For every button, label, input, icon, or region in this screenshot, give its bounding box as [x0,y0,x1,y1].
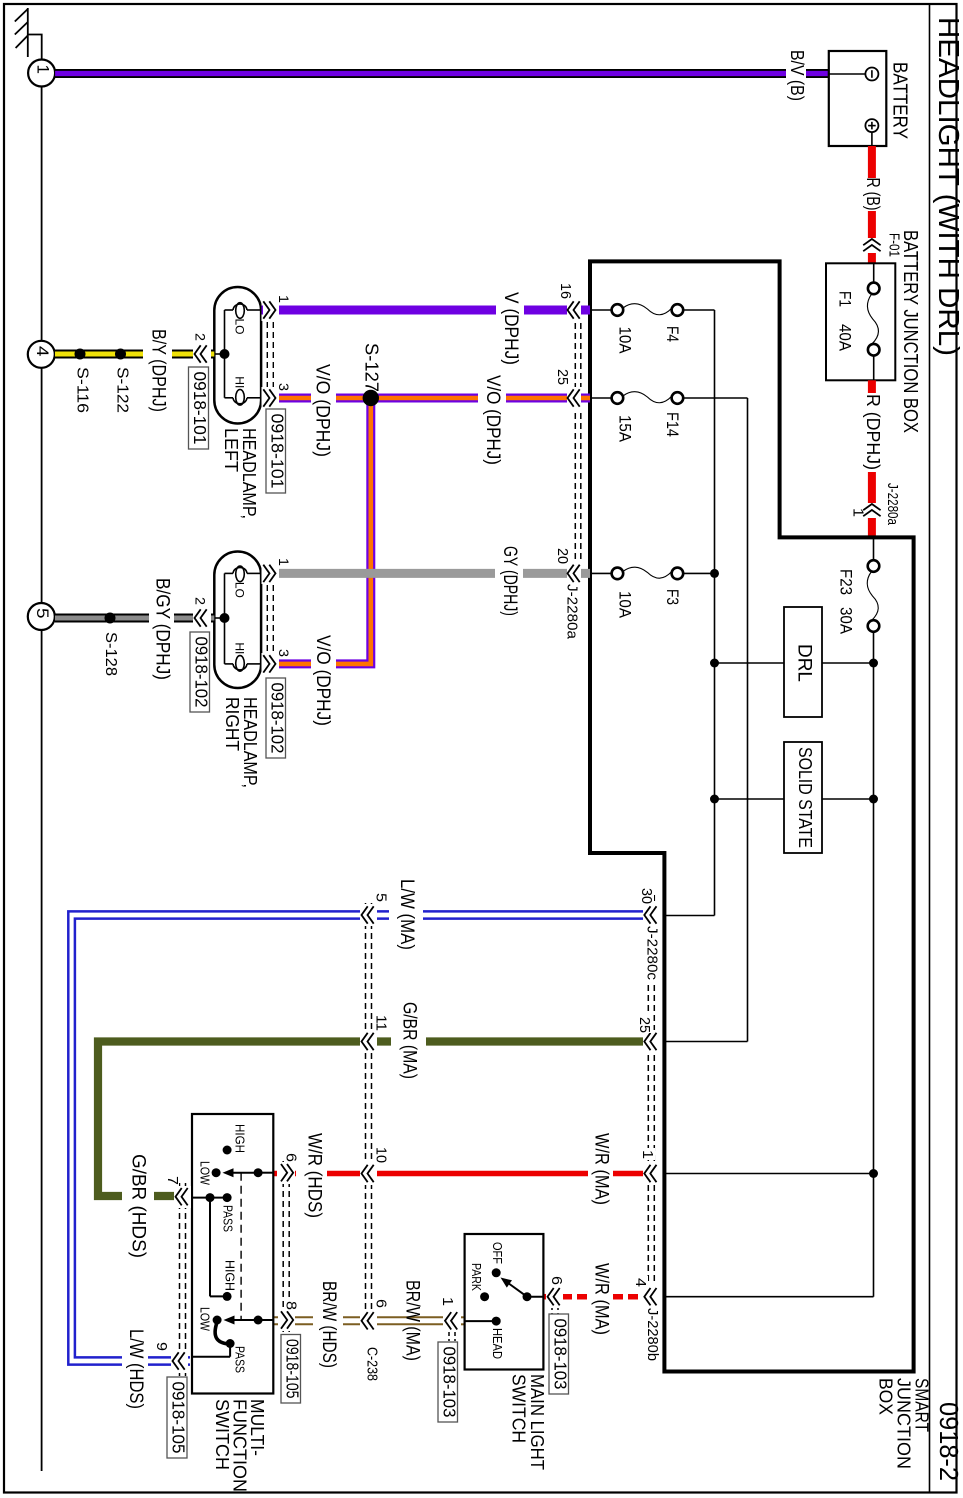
svg-text:1: 1 [850,508,867,517]
SJB stub pin 25 [664,1041,747,1043]
svg-text:L/W (HDS): L/W (HDS) [125,1329,146,1409]
connector box 0918-103 (right) [549,1314,570,1394]
svg-text:0918-103: 0918-103 [439,1347,459,1418]
svg-text:B/V (B): B/V (B) [787,50,808,101]
DRL row wires and junctions [710,659,878,668]
MFS lower LOW contact [197,1307,221,1331]
label 1 [639,1148,656,1160]
label V/O (DPHJ) right [478,375,506,465]
svg-text:SOLID STATE: SOLID STATE [795,747,815,848]
label MULTI-FUNCTION SWITCH [212,1399,268,1492]
label 2 [192,597,208,605]
svg-text:W/R (MA): W/R (MA) [591,1133,612,1205]
svg-text:25: 25 [554,369,571,385]
connector F-01 chevron [863,239,880,251]
label BATTERY [888,62,910,139]
wire B/V (B) battery to ground 1 [55,69,829,78]
MFS upper PASS contact [220,1193,234,1232]
label BR/W (MA) [402,1280,423,1361]
SJB internal wire F14 to pin 25 [747,398,749,1042]
wire R (DPHJ) to smart junction box [868,380,876,537]
svg-text:10: 10 [373,1147,390,1163]
label W/R (HDS) [300,1133,327,1218]
svg-text:LO: LO [232,582,246,598]
svg-text:0918-102: 0918-102 [267,683,287,754]
svg-text:C-238: C-238 [364,1347,381,1381]
MFS lower PASS contact [226,1339,247,1373]
svg-text:6: 6 [283,1153,300,1162]
ground circle 1 [28,60,55,87]
label 3 [276,649,292,657]
svg-text:R (DPHJ): R (DPHJ) [863,394,884,470]
MLS stub pin 6 [527,1296,543,1298]
svg-text:SWITCH: SWITCH [509,1374,530,1443]
svg-text:BATTERY JUNCTION BOX: BATTERY JUNCTION BOX [899,230,921,433]
connector J-2280a pin 1 chevron [860,503,884,518]
connector box 0918-105 (right) [281,1335,302,1404]
svg-text:PARK: PARK [469,1263,483,1292]
connector 0918-105 dashed lines (left) [180,1183,186,1376]
label 2 [192,333,208,341]
MLS lever [501,1278,532,1302]
wire BR/W (HDS)/(MA) multi-function switch to main light switch [274,1317,465,1324]
svg-text:4: 4 [33,346,52,357]
MFS upper lever [223,1168,263,1177]
SOLID STATE row wires and junctions [710,795,878,804]
label 30 [638,886,655,904]
svg-text:0918-102: 0918-102 [191,637,211,708]
svg-text:1: 1 [439,1297,456,1306]
pin 25 chevron [643,1030,660,1053]
MLS OFF contact [490,1242,504,1277]
svg-text:3: 3 [276,383,292,391]
label 16 (pin) [557,283,574,299]
svg-text:2: 2 [192,333,208,341]
connector box 0918-103 (left) [438,1342,459,1422]
svg-text:S-122: S-122 [114,367,131,413]
headlamp right [214,552,261,689]
svg-text:HEAD: HEAD [490,1328,504,1359]
svg-text:7: 7 [164,1176,181,1185]
svg-text:J-2280c: J-2280c [644,926,661,980]
connector J-2280a dashed lines [575,303,581,582]
label L/W (HDS) [122,1329,148,1409]
MLS PARK contact [469,1263,489,1301]
connector chevron pin 20 [567,562,590,584]
label SMART JUNCTION BOX [875,1378,932,1469]
svg-text:25: 25 [636,1017,653,1033]
MFS lower HIGH contact [222,1260,236,1301]
svg-text:F1: F1 [835,291,853,307]
splice S-122 [114,349,131,414]
svg-text:G/BR (HDS): G/BR (HDS) [128,1154,149,1258]
svg-text:LEFT: LEFT [221,428,242,472]
svg-text:LOW: LOW [197,1161,211,1185]
svg-text:F23: F23 [836,569,854,595]
fuse F14 15A [590,392,748,442]
label J-2280c [643,926,661,981]
connector 0918-105 dashed lines (right) [283,1161,289,1332]
chevron 6 on BR/W [360,1299,390,1332]
wire R (B) stub into battery junction box [868,253,876,263]
svg-text:G/BR (MA): G/BR (MA) [399,1002,420,1079]
fuse F23 30A [836,560,879,634]
label HEADLAMP, RIGHT [222,697,261,788]
MLS wire HEAD to pin 1 [465,1320,497,1322]
chevron 10 on W/R [360,1147,390,1185]
svg-text:J-2280a: J-2280a [564,584,581,640]
svg-text:10A: 10A [615,591,633,618]
svg-text:HEADLIGHT (WITH DRL): HEADLIGHT (WITH DRL) [932,17,963,356]
junction node at F3 output [710,569,719,578]
label BR/W (HDS) [318,1281,339,1368]
svg-text:BR/W (MA): BR/W (MA) [402,1280,423,1361]
label V/O (DPHJ) bottom [311,635,336,726]
svg-text:HI: HI [232,642,246,654]
label V/O (DPHJ) left [311,364,336,457]
svg-text:30: 30 [638,888,655,904]
svg-text:3: 3 [276,649,292,657]
MFS wire PASS to pin 9 [192,1344,230,1357]
svg-text:PASS: PASS [220,1205,234,1232]
chevron pin 1 headlamp left [262,299,280,321]
connector box 0918-102 (pin1/3 side) [266,678,287,758]
MFS upper LOW contact [197,1161,220,1185]
SJB stub pin 30 [664,915,714,917]
label B/Y (DPHJ) [148,329,169,412]
svg-text:11: 11 [373,1015,390,1031]
svg-text:LOW: LOW [197,1307,211,1331]
label J-2280a (below pin 20) [563,584,581,640]
MFS internal stub pin 8 [258,1319,273,1321]
svg-text:L/W (MA): L/W (MA) [396,879,417,950]
label B/V (B) [787,50,808,101]
label V (DPHJ) [500,292,521,365]
svg-text:S-116: S-116 [74,367,91,413]
wire G/BR (MA) pin 25 to multi-function switch [98,1042,660,1197]
svg-text:J-2280b: J-2280b [644,1308,661,1361]
multi-function switch box [192,1114,273,1394]
headlamp left connector dashed line [267,302,273,406]
MFS flash-to-pass arc [215,1322,228,1344]
connector chevron pin 16 [567,299,590,321]
svg-text:6: 6 [548,1276,565,1285]
svg-text:1: 1 [276,558,292,566]
svg-text:SWITCH: SWITCH [212,1399,233,1470]
chevron 11 on G/BR [360,1015,390,1053]
label 4 [632,1276,649,1288]
svg-text:GY (DPHJ): GY (DPHJ) [499,546,520,616]
svg-text:20: 20 [554,548,571,564]
pin 4 chevron [643,1285,660,1308]
svg-text:0918-105: 0918-105 [169,1382,189,1454]
connector box 0918-101 (pin1/3 side) [266,409,287,493]
svg-text:8: 8 [283,1301,300,1310]
pin 1 chevron [643,1162,660,1185]
MFS dashed mechanical link [240,1173,242,1320]
chevron pin 9 [153,1342,188,1372]
pin 30 chevron [643,904,660,926]
MFS link wire to lower section [210,1198,227,1297]
svg-text:S-127: S-127 [361,343,382,392]
chevron pin 1 headlamp right [262,562,280,584]
label J-2280b [643,1308,661,1362]
wire W/R (MA) pin 1 to multi-function switch [274,1171,660,1177]
chevron pin 7 [164,1174,191,1208]
wire V/O (DPHJ) high beam feed [262,394,591,403]
label R (DPHJ) [863,394,884,470]
ground circle 5 [28,603,55,630]
svg-text:4: 4 [632,1278,649,1287]
label 20 (pin) [554,548,571,564]
splice S-116 [74,349,91,414]
svg-text:OFF: OFF [490,1242,504,1264]
svg-text:BATTERY: BATTERY [888,62,910,139]
label W/R (MA) [588,1133,613,1205]
headlamp right connector dashed line [267,565,273,672]
svg-text:0918-105: 0918-105 [282,1339,302,1399]
connector box 0918-105 (left) [167,1377,189,1458]
svg-text:LO: LO [232,319,246,335]
label C-238 [360,1347,381,1381]
svg-text:0918-2: 0918-2 [934,1402,963,1481]
label 25 [636,1015,653,1033]
label B/GY (DPHJ) [152,578,173,680]
title HEADLIGHT (WITH DRL) [932,17,963,356]
svg-text:40A: 40A [835,324,853,351]
svg-text:0918-103: 0918-103 [550,1319,570,1390]
splice S-127 [363,390,379,406]
svg-text:F3: F3 [663,589,681,605]
SJB wire pin 1 to bus [664,1169,878,1178]
ground symbol G1 [15,8,42,59]
chevron pin 2 headlamp left [193,343,211,365]
svg-text:10A: 10A [615,327,633,354]
wire R (DPHJ) stub inside SJB to F23 [873,537,875,560]
MFS internal stub pin 6 [258,1172,273,1174]
svg-text:16: 16 [557,283,574,299]
chevron pin 3 headlamp right [262,653,280,675]
main light switch box [465,1234,544,1370]
chevron pin 6 [278,1151,300,1184]
label GY (DPHJ) [499,546,520,616]
svg-text:S-128: S-128 [102,632,119,676]
MFS upper HIGH contact [223,1124,247,1155]
label W/R (MA) lower [588,1263,613,1335]
SJB internal bus F23 down [873,632,875,1297]
ground circle 4 [28,341,55,368]
chevron pin 8 [278,1299,300,1331]
svg-text:V/O (DPHJ): V/O (DPHJ) [312,364,333,457]
label 1 (pin) [850,508,867,517]
wire B/Y (DPHJ) headlamp left ground [55,350,214,359]
chevron MLS pin 6 [546,1276,565,1315]
svg-text:J-2280a: J-2280a [884,483,901,526]
svg-text:DRL: DRL [794,644,816,682]
label G/BR (HDS) [122,1154,154,1258]
label 25 (pin) [554,369,571,385]
smart junction box outline [590,261,914,1371]
label J-2280a [884,483,901,526]
fuse F1 40A [835,263,879,380]
SJB wire pin 4 to bus [664,1296,873,1298]
label S-127 [361,343,382,392]
fuse F4 10A [590,304,715,354]
label R (B) [863,178,884,211]
label G/BR (MA) [391,1002,426,1079]
fuse F3 10A [590,567,715,618]
svg-text:F14: F14 [663,412,681,437]
svg-text:2: 2 [192,597,208,605]
svg-text:BOX: BOX [875,1378,896,1415]
svg-text:1: 1 [33,65,52,75]
svg-text:6: 6 [373,1299,390,1308]
svg-text:1: 1 [639,1150,656,1159]
svg-text:RIGHT: RIGHT [222,697,243,751]
label F-01 [886,233,903,257]
DRL module box [784,607,822,717]
svg-text:F4: F4 [663,326,681,342]
label HEADLAMP, LEFT [221,428,260,519]
connector C-238 dashed lines [366,903,372,1333]
label L/W (MA) [389,879,423,950]
label MAIN LIGHT SWITCH [509,1374,548,1470]
svg-text:0918-101: 0918-101 [267,414,287,489]
svg-text:W/R (MA): W/R (MA) [591,1263,612,1335]
svg-text:HIGH: HIGH [232,1124,246,1153]
connector box 0918-101 (pin2 side) [189,367,211,449]
svg-text:V/O (DPHJ): V/O (DPHJ) [482,375,503,465]
chevron pin 3 headlamp left [262,387,280,409]
svg-text:9: 9 [153,1342,170,1351]
svg-text:1: 1 [276,295,292,303]
svg-text:B/Y (DPHJ): B/Y (DPHJ) [148,329,169,412]
svg-text:30A: 30A [836,607,854,634]
headlamp left [214,287,261,424]
svg-text:PASS: PASS [232,1346,246,1373]
svg-text:15A: 15A [615,415,633,442]
chevron pin 2 headlamp right [193,607,211,629]
wire V (DPHJ) low beam left [262,306,591,315]
wire R (B) battery to F-01 [868,146,876,238]
label 1 [276,295,292,303]
svg-text:5: 5 [373,893,390,902]
svg-text:V/O (DPHJ): V/O (DPHJ) [312,635,333,726]
svg-text:R (B): R (B) [863,178,884,211]
svg-text:V (DPHJ): V (DPHJ) [500,292,521,365]
svg-text:0918-101: 0918-101 [190,372,210,445]
SOLID STATE module box [784,742,822,853]
page number 0918-2 [934,1402,963,1481]
connector J-2280c/b dashed lines [648,895,654,1345]
MFS common node pin 7 [192,1193,227,1202]
wire V/O (DPHJ) branch to right headlamp [262,398,371,664]
wire GY (DPHJ) low beam right [262,569,569,578]
label 1 [276,558,292,566]
chevron MLS pin 1 [439,1297,461,1341]
connector box 0918-102 (pin2 side) [190,632,211,712]
svg-text:HI: HI [232,376,246,388]
svg-text:B/GY (DPHJ): B/GY (DPHJ) [152,578,173,680]
battery junction box [826,263,895,380]
wire B/GY (DPHJ) headlamp right ground [55,614,214,623]
connector chevron pin 25 [567,387,590,409]
battery [829,51,887,146]
splice S-128 [102,613,119,677]
MLS HEAD contact [490,1317,504,1359]
label 3 [276,383,292,391]
svg-text:BR/W (HDS): BR/W (HDS) [318,1281,339,1368]
wire W/R (MA) main light switch to pin 4 [543,1294,660,1300]
wire L/W (MA) pin 30 to multi-function switch [68,911,660,1364]
svg-text:W/R (HDS): W/R (HDS) [304,1133,325,1218]
label BATTERY JUNCTION BOX [899,230,921,433]
SJB internal bus from fuses to DRL/solid state [714,310,716,916]
ground bus wire (left side) [41,87,43,1472]
chevron 5 on L/W [360,893,390,926]
MFS lower lever [224,1316,263,1325]
svg-text:HIGH: HIGH [222,1260,236,1291]
svg-text:5: 5 [33,608,52,619]
